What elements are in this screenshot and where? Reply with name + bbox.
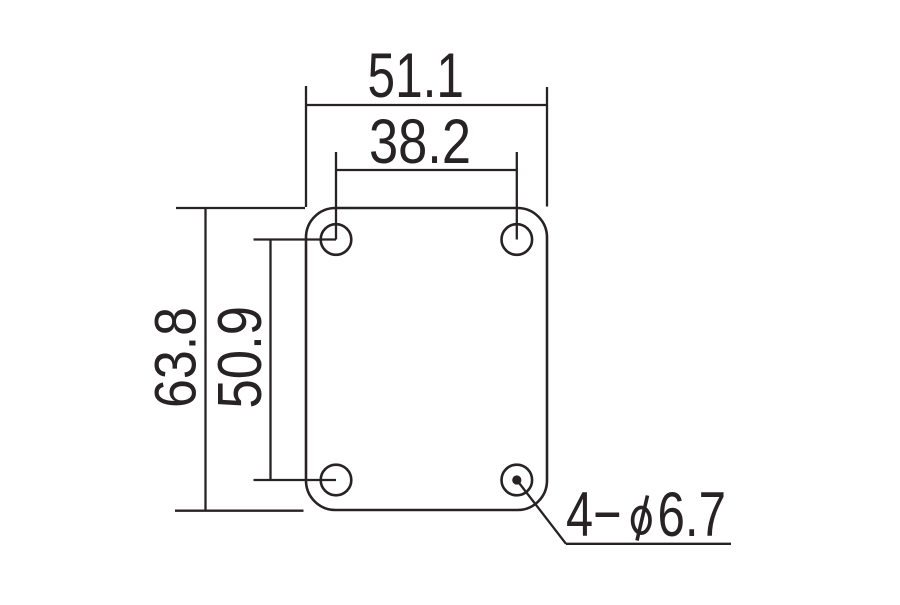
neck plate outline [306,208,547,510]
hole bottom-right [502,465,533,496]
extension line 63.8 bottom [175,510,304,512]
dimension line 38.2 [336,169,517,171]
dimension line 51.1 [306,104,547,106]
extension line 38.2 left [335,152,337,240]
leader dot at bottom-right hole center [512,475,521,484]
leader line horizontal underline [566,543,731,545]
svg-text:63.8: 63.8 [144,307,209,408]
extension line 51.1 right [546,87,548,207]
svg-text:4−: 4− [566,480,622,550]
hole top-right [502,224,533,255]
svg-text:6.7: 6.7 [658,480,727,550]
hole top-left [321,224,352,255]
extension line 51.1 left [305,86,307,207]
leader line diagonal [517,480,566,544]
extension line 38.2 right [516,152,518,240]
dimension line 63.8 [204,208,206,511]
svg-text:38.2: 38.2 [369,107,471,177]
svg-text:51.1: 51.1 [368,41,465,111]
hole spec phi symbol slash [637,496,648,541]
dimension line 50.9 [269,240,271,481]
hole spec phi symbol ellipse [633,508,650,534]
extension line 50.9 bottom [254,479,337,481]
hole bottom-left [321,465,352,496]
svg-text:50.9: 50.9 [205,306,275,409]
extension line 50.9 top [254,238,337,240]
extension line 63.8 top [176,207,305,209]
